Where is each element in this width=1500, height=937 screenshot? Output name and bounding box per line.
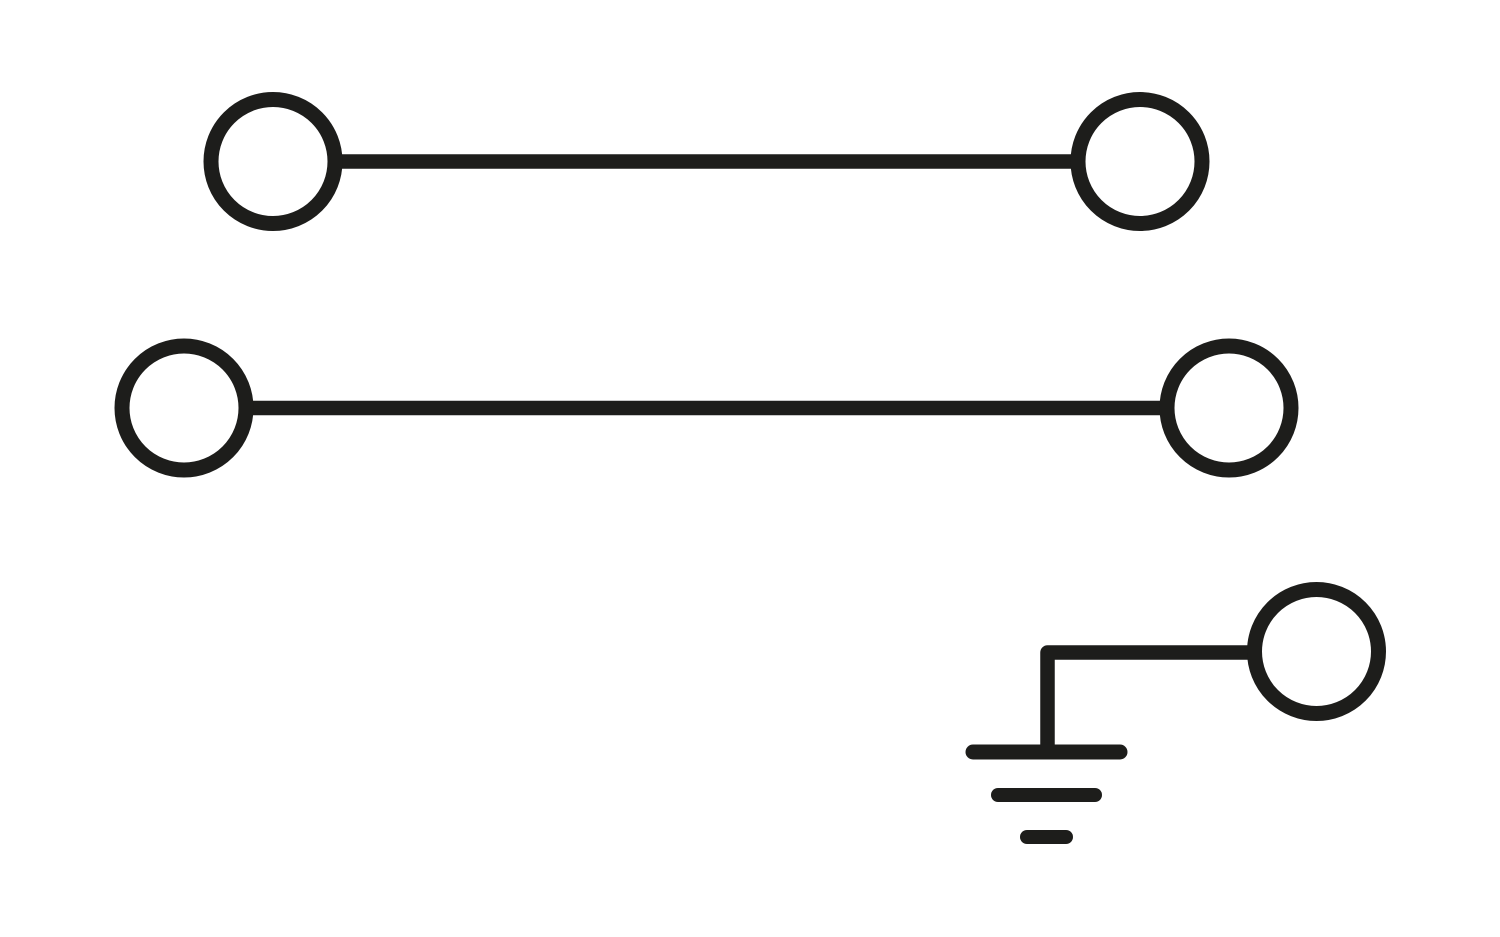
terminal circle: row 1 left: [211, 100, 335, 224]
ground bar 3 (short): [1027, 830, 1066, 844]
terminal circle: row 1 right: [1078, 100, 1202, 224]
wire: row 1 bridge: [300, 154, 1110, 169]
ground bar 2 (medium): [998, 788, 1095, 802]
ground bar 1 (long): [973, 745, 1120, 760]
wire: ground lead (horizontal + vertical elbow): [1048, 653, 1256, 753]
terminal circle: row 3 right (PE): [1255, 590, 1379, 714]
terminal circle: row 2 right: [1167, 346, 1291, 470]
wire: row 2 bridge: [210, 401, 1200, 416]
terminal circle: row 2 left: [122, 346, 246, 470]
